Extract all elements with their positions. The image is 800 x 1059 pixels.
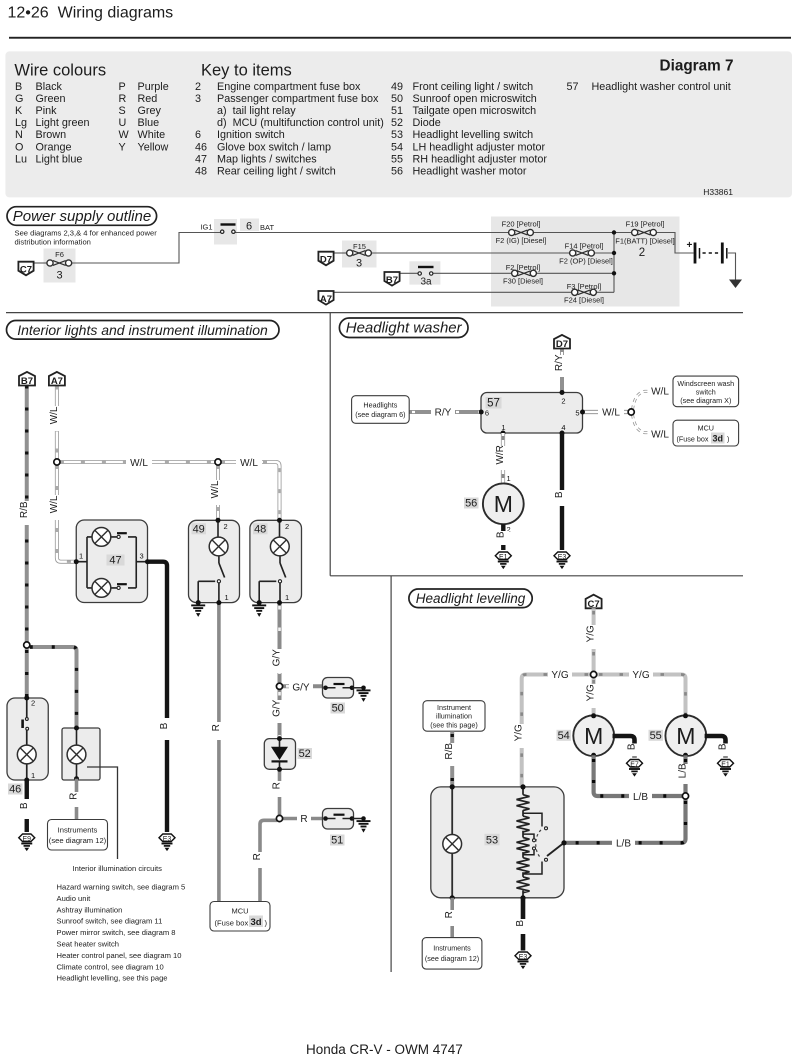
unit 53 lamp bottom pin dot <box>450 895 455 900</box>
label B vertical pin4 <box>554 490 568 506</box>
unit 48 pin 1 dot <box>277 600 282 605</box>
wire G/Y junction to diode 52 <box>278 689 282 738</box>
svg-text:53: 53 <box>486 834 498 846</box>
svg-text:Interior illumination circuits: Interior illumination circuits <box>73 864 163 873</box>
label W/L horizontal 1 <box>126 455 152 469</box>
svg-text:Y: Y <box>119 141 126 153</box>
wire 3a to fuse F2/F30 <box>433 272 514 274</box>
section top border line <box>6 312 743 314</box>
svg-text:F1(BATT) [Diesel]: F1(BATT) [Diesel] <box>615 237 674 246</box>
svg-text:50: 50 <box>391 93 403 105</box>
unit 49 switch blade <box>219 563 225 578</box>
svg-text:Purple: Purple <box>138 81 169 93</box>
label R vertical unit 49 column <box>211 722 225 740</box>
svg-text:G/Y: G/Y <box>272 649 283 667</box>
svg-text:Power mirror switch, see diagr: Power mirror switch, see diagram 8 <box>57 928 176 937</box>
svg-text:Yellow: Yellow <box>138 141 169 153</box>
wire R/Y from headlights box to pin 6 <box>409 410 481 414</box>
unit 51 internal contacts <box>326 818 352 820</box>
svg-text:Brown: Brown <box>36 129 67 141</box>
ground E3 (washer) <box>554 552 570 569</box>
battery right short plate <box>726 248 728 259</box>
svg-text:Blue: Blue <box>138 117 160 129</box>
label R/B vertical levelling <box>444 743 458 766</box>
svg-text:W/R: W/R <box>495 445 506 464</box>
ignition switch gray box <box>214 219 237 245</box>
svg-text:Headlights: Headlights <box>363 401 397 410</box>
svg-text:Tailgate open microswitch: Tailgate open microswitch <box>413 105 537 117</box>
svg-text:B: B <box>159 722 170 729</box>
svg-text:R/B: R/B <box>444 743 455 760</box>
svg-text:W/L: W/L <box>49 406 60 424</box>
wiper arm <box>547 843 564 856</box>
wire Y/G junction to motor 54 <box>592 678 596 716</box>
svg-text:R: R <box>272 782 283 789</box>
wire R/B junction to unit 46 pin 2 <box>25 648 29 698</box>
svg-text:49: 49 <box>391 81 403 93</box>
svg-text:Instrument: Instrument <box>437 703 471 712</box>
unit 47 number label <box>107 555 125 567</box>
branch wire to windscreen wash switch <box>633 391 672 409</box>
connector C7 (levelling) <box>586 595 602 610</box>
diode 52 triangle <box>271 747 288 760</box>
svg-text:R/B: R/B <box>19 501 30 518</box>
svg-text:Orange: Orange <box>36 141 72 153</box>
svg-text:E3: E3 <box>163 836 172 843</box>
svg-text:6: 6 <box>246 221 252 233</box>
svg-text:LH headlight adjuster motor: LH headlight adjuster motor <box>413 141 546 153</box>
unit 50 earth symbol <box>357 690 371 702</box>
tap contact circle 3 <box>533 847 536 850</box>
svg-text:2: 2 <box>195 81 201 93</box>
svg-text:Lu: Lu <box>15 153 27 165</box>
svg-text:Honda CR-V - OWM 4747: Honda CR-V - OWM 4747 <box>306 1042 463 1057</box>
unit 47 bottom switch contact <box>117 586 120 589</box>
wire D7 to F15 <box>334 252 349 254</box>
wire F3/F24 to bus corner <box>595 291 614 293</box>
svg-text:Headlight levelling, see this: Headlight levelling, see this page <box>57 974 168 983</box>
connector D7 (washer) <box>554 335 570 350</box>
svg-text:Headlight levelling switch: Headlight levelling switch <box>413 129 534 141</box>
svg-text:1: 1 <box>225 593 229 602</box>
callout leader line <box>87 767 118 859</box>
motor 55 bottom pin dot <box>683 753 688 758</box>
unit 57 pin 4 dot <box>560 431 565 436</box>
svg-text:B: B <box>718 743 729 750</box>
unit 53 levelling switch box <box>431 787 564 898</box>
svg-text:2: 2 <box>639 247 645 259</box>
svg-text:(Fuse box: (Fuse box <box>677 435 709 444</box>
unit 53 lamp <box>443 835 462 854</box>
label B vertical motor55 <box>718 743 732 756</box>
label R vertical levelling <box>444 910 458 926</box>
svg-text:3: 3 <box>195 93 201 105</box>
unit 51 switch bar <box>334 814 345 816</box>
svg-text:W/L: W/L <box>49 495 60 513</box>
svg-text:See diagrams 2,3,& 4 for enhan: See diagrams 2,3,& 4 for enhanced power <box>15 229 158 238</box>
svg-text:K: K <box>15 105 23 117</box>
svg-text:F2 [Petrol]: F2 [Petrol] <box>506 263 541 272</box>
label W/L horizontal washer <box>598 405 624 418</box>
motor 55 top pin dot <box>683 713 688 718</box>
svg-text:MCU: MCU <box>698 424 714 433</box>
unit 50 right pin dot <box>350 686 355 691</box>
svg-text:R: R <box>300 814 307 825</box>
svg-text:B: B <box>15 81 22 93</box>
svg-text:Black: Black <box>36 81 63 93</box>
switch 3a bar <box>418 266 434 268</box>
svg-text:Grey: Grey <box>138 105 162 117</box>
wire W/R pin1 to motor 56 <box>501 433 505 483</box>
svg-text:Light blue: Light blue <box>36 153 83 165</box>
label B vertical levelling <box>515 919 529 934</box>
connector C7 (power) <box>18 262 33 276</box>
svg-text:47: 47 <box>195 153 207 165</box>
svg-text:G/Y: G/Y <box>292 682 310 693</box>
unit 48 rear ceiling light box <box>250 520 302 602</box>
svg-text:F19 [Petrol]: F19 [Petrol] <box>626 220 665 229</box>
svg-text:illumination: illumination <box>436 712 472 721</box>
svg-text:F2 (OP) [Diesel]: F2 (OP) [Diesel] <box>559 257 613 266</box>
junction circle R/B column <box>24 642 30 648</box>
svg-text:4: 4 <box>561 423 565 432</box>
svg-text:E7: E7 <box>630 762 639 769</box>
label B vertical motor54 <box>627 743 641 756</box>
svg-text:E1: E1 <box>721 762 730 769</box>
svg-text:(see diagram 12): (see diagram 12) <box>425 954 479 963</box>
washer section bottom border <box>330 575 743 577</box>
svg-text:A7: A7 <box>51 376 63 387</box>
washer control unit 57 box <box>481 393 583 434</box>
MCU fuse box 3d reference (washer) <box>673 420 739 446</box>
svg-text:E3: E3 <box>519 954 528 961</box>
unit 48 earth symbol <box>252 605 266 617</box>
unit 47 top switch bar <box>117 532 127 534</box>
instruments lamp bottom pin dot <box>74 776 79 781</box>
wire B from unit 46 to E9 <box>25 780 29 832</box>
svg-text:RH headlight adjuster motor: RH headlight adjuster motor <box>413 153 548 165</box>
unit 48 ground dot <box>257 600 262 605</box>
tap 4 <box>523 862 542 875</box>
svg-text:L/B: L/B <box>678 763 689 778</box>
svg-text:F6: F6 <box>55 250 64 259</box>
unit 50 sunroof microswitch box <box>323 678 354 699</box>
battery ground arrow <box>729 280 742 289</box>
motor 56 number label <box>464 498 479 510</box>
power supply pill label <box>7 207 157 226</box>
motor 56 washer motor <box>483 483 524 524</box>
svg-text:R/Y: R/Y <box>435 408 452 419</box>
wire B unit 53 to E3 <box>521 898 526 951</box>
junction circle G/Y <box>276 683 282 689</box>
unit 49 lamp <box>209 537 228 556</box>
unit 47 pin 3 dot <box>145 559 150 564</box>
svg-text:Seat heater switch: Seat heater switch <box>57 940 119 949</box>
diode 52 box <box>264 739 295 770</box>
svg-text:12•26 Wiring diagrams: 12•26 Wiring diagrams <box>8 5 174 22</box>
svg-text:B7: B7 <box>21 376 33 387</box>
diode 52 number label <box>298 748 313 760</box>
instruments reference box (levelling) <box>422 938 482 970</box>
svg-text:2: 2 <box>224 522 228 531</box>
ground E9 <box>19 834 35 851</box>
diode 52 internal wire <box>279 739 281 770</box>
label R/B vertical <box>19 501 33 525</box>
unit 47 top lamp <box>92 528 111 547</box>
wire F19 to battery <box>655 233 694 254</box>
svg-text:switch: switch <box>696 387 716 396</box>
svg-text:N: N <box>15 129 23 141</box>
label W/L branch lower <box>648 428 672 441</box>
unit 49 front ceiling light box <box>189 520 240 602</box>
unit 53 wiper pin dot <box>561 840 566 845</box>
svg-text:R/Y: R/Y <box>554 354 565 371</box>
svg-text:S: S <box>119 105 126 117</box>
svg-text:M: M <box>676 723 695 749</box>
wire W/L down to unit 47 pin 1 <box>57 465 76 562</box>
svg-text:Rear ceiling light / switch: Rear ceiling light / switch <box>217 166 336 178</box>
svg-text:3d: 3d <box>712 434 723 444</box>
svg-text:Engine compartment fuse box: Engine compartment fuse box <box>217 81 361 93</box>
tap 2 <box>523 834 534 838</box>
svg-text:O: O <box>15 141 23 153</box>
svg-text:E9: E9 <box>22 836 31 843</box>
unit 50 ground wire <box>352 687 364 689</box>
svg-text:47: 47 <box>109 555 121 567</box>
wire L/B junction to unit 53 wiper <box>564 799 686 843</box>
svg-text:46: 46 <box>195 141 207 153</box>
unit 49 number label <box>192 523 207 535</box>
unit 49 switch contact circle <box>217 580 220 583</box>
unit 46 pin 2 dot <box>24 696 29 701</box>
motor 54 number label <box>557 730 572 742</box>
svg-text:53: 53 <box>391 129 403 141</box>
label R vertical MCU drop <box>252 852 266 868</box>
svg-text:55: 55 <box>650 730 662 742</box>
svg-text:B: B <box>495 531 506 538</box>
wire W/L horizontal to unit 48 <box>221 462 280 520</box>
unit 53 resistor top pin dot <box>520 784 525 789</box>
label R vertical below diode <box>272 781 286 797</box>
wire R branch to unit 51 <box>283 817 326 821</box>
wire Y/G junction right branch to motor 55 <box>597 675 686 716</box>
unit 48 lamp <box>270 537 289 556</box>
unit 48 pin 2 dot <box>277 518 282 523</box>
svg-text:1: 1 <box>501 423 505 432</box>
unit 57 pin 1 dot <box>501 431 506 436</box>
unit 51 ground dot <box>361 816 366 821</box>
wire Y/G from C7 to junction <box>592 608 596 671</box>
wire B from unit 47 pin 3 to E3 ground <box>148 562 168 832</box>
ground E3 (interior) <box>159 834 175 851</box>
junction dot bus row1 <box>612 230 616 234</box>
label Y/G horizontal left <box>548 668 572 681</box>
levelling section left border <box>390 576 392 972</box>
svg-text:U: U <box>119 117 127 129</box>
fuse F14/F2(OP) <box>570 250 595 256</box>
svg-text:2: 2 <box>285 522 289 531</box>
svg-text:W/L: W/L <box>651 387 669 398</box>
interior footnote list <box>57 883 186 983</box>
unit 48 number label <box>253 523 268 535</box>
unit 53 lamp wire <box>451 787 453 898</box>
svg-text:(see diagram 12): (see diagram 12) <box>49 836 107 845</box>
tap 1 <box>523 813 542 826</box>
wire W/L down to unit 49 pin 2 <box>216 465 220 520</box>
svg-text:a) tail light relay: a) tail light relay <box>217 105 296 117</box>
svg-text:R: R <box>444 911 455 918</box>
wire battery to ground <box>728 253 736 280</box>
wire R from diode to junction <box>278 769 282 815</box>
svg-text:3: 3 <box>140 552 144 561</box>
svg-text:Pink: Pink <box>36 105 58 117</box>
svg-text:Front ceiling light / switch: Front ceiling light / switch <box>413 81 534 93</box>
label W/L horizontal 2 <box>236 455 262 469</box>
svg-text:W: W <box>119 129 130 141</box>
junction dot bus row3 <box>612 271 616 275</box>
svg-text:57: 57 <box>567 81 579 93</box>
svg-text:BAT: BAT <box>260 223 274 232</box>
unit 49 ground dot <box>196 600 201 605</box>
unit 46 switch blade bar <box>21 720 24 729</box>
junction circle R <box>276 815 282 821</box>
wire Y/G junction left branch to unit 53 <box>522 675 591 787</box>
wiper contact dashes <box>536 830 541 858</box>
fuse F3/F24 <box>572 289 597 295</box>
wire R to instruments reference box <box>75 779 79 820</box>
wire BAT to fuse F20 <box>235 232 510 234</box>
unit 49 pin 1 dot <box>216 600 221 605</box>
svg-text:H33861: H33861 <box>703 187 733 197</box>
headlight washer pill label <box>339 318 468 338</box>
wire W/L from pin 5 to connector circle <box>583 410 629 414</box>
svg-text:Y/G: Y/G <box>551 670 568 681</box>
unit 51 tailgate microswitch box <box>323 809 354 830</box>
fuse F2/F30 <box>512 270 537 276</box>
unit 57 number label <box>486 397 502 410</box>
svg-text:50: 50 <box>332 703 344 715</box>
label G/Y vertical lower <box>272 699 286 723</box>
wire L/B motor 55 to junction <box>683 755 687 792</box>
wire F20 to F19 <box>532 232 633 234</box>
unit 50 number label <box>331 703 346 715</box>
fuse F20/F2(IG) <box>509 229 534 235</box>
unit 46 switch contact top <box>25 718 28 721</box>
unit 57 pin 2 dot <box>560 390 565 395</box>
diode 52 top pin dot <box>277 736 282 741</box>
unit 47 bottom switch bar <box>117 583 127 585</box>
svg-text:W/L: W/L <box>210 480 221 498</box>
svg-text:5: 5 <box>575 409 579 418</box>
svg-text:A7: A7 <box>320 294 332 305</box>
svg-text:52: 52 <box>299 748 311 760</box>
connector A7 (power) <box>318 291 333 305</box>
svg-text:W/L: W/L <box>651 430 669 441</box>
resistor 4 <box>517 858 530 874</box>
fuse box 2 gray panel <box>491 217 680 307</box>
svg-text:d) MCU (multifunction control: d) MCU (multifunction control unit) <box>217 117 384 129</box>
svg-text:MCU: MCU <box>231 907 248 916</box>
svg-text:1: 1 <box>507 474 511 483</box>
instruments lamp internal wire <box>76 728 78 779</box>
unit 50 switch bar <box>334 683 345 685</box>
unit 53 lamp top pin dot <box>450 784 455 789</box>
label L/B horizontal upper <box>629 790 652 803</box>
key to items list <box>195 81 731 178</box>
svg-text:Y/G: Y/G <box>632 670 649 681</box>
label B vertical motor56 <box>495 531 509 545</box>
label W/L branch upper <box>648 385 672 398</box>
wire B7 to 3a switch <box>400 272 419 274</box>
svg-text:1: 1 <box>31 771 35 780</box>
svg-text:B: B <box>515 920 526 927</box>
label B vertical unit47 output <box>159 718 173 740</box>
junction dot bus row2 <box>612 251 616 255</box>
svg-text:48: 48 <box>254 524 266 536</box>
svg-text:54: 54 <box>558 730 570 742</box>
unit 51 ground wire <box>352 818 364 820</box>
instruments lamp box <box>62 728 100 780</box>
svg-text:M: M <box>494 491 513 517</box>
unit 49 pin 2 dot <box>216 518 221 523</box>
resistor 2 <box>517 816 530 832</box>
label L/B vertical motor55 <box>678 763 692 784</box>
unit 48 switch blade <box>280 563 286 578</box>
unit 57 pin 5 dot <box>580 410 585 415</box>
unit 46 lamp <box>17 745 36 764</box>
battery left short plate <box>699 248 701 259</box>
svg-text:Green: Green <box>36 93 66 105</box>
unit 47 pin 1 dot <box>74 559 79 564</box>
wire B from pin 4 to E3 <box>560 433 564 550</box>
wire G/Y branch to unit 50 <box>283 684 326 688</box>
tap contact circle 1 <box>545 827 548 830</box>
label W/L vertical A7 upper <box>49 406 63 431</box>
label Y/G vertical upper <box>586 625 600 649</box>
svg-text:55: 55 <box>391 153 403 165</box>
junction circle Y/G <box>591 671 597 677</box>
svg-text:C7: C7 <box>588 599 600 610</box>
unit 47 internal right bus <box>111 537 148 588</box>
svg-text:R: R <box>252 853 263 860</box>
label G/Y vertical upper <box>272 649 286 673</box>
svg-text:E1: E1 <box>499 554 508 561</box>
svg-text:Headlight levelling: Headlight levelling <box>416 591 526 606</box>
svg-text:F20 [Petrol]: F20 [Petrol] <box>502 220 541 229</box>
label W/L vertical unit 49 drop <box>210 480 224 505</box>
unit 57 pin 6 dot <box>479 410 484 415</box>
connector B7 (power) <box>384 272 399 286</box>
resistor 3 <box>517 838 530 854</box>
svg-text:Climate control, see diagram 1: Climate control, see diagram 10 <box>57 962 164 971</box>
label W/L vertical lower left <box>49 495 63 520</box>
section divider vertical between interior and washer <box>329 313 331 576</box>
unit 51 right pin dot <box>350 816 355 821</box>
wire A7 to fuse F3/F24 <box>334 291 574 293</box>
ground E1 (levelling) <box>718 760 734 777</box>
unit 47 internal left bus <box>76 537 92 588</box>
svg-text:56: 56 <box>391 166 403 178</box>
svg-text:Heater control panel, see diag: Heater control panel, see diagram 10 <box>57 951 182 960</box>
svg-text:F3 [Petrol]: F3 [Petrol] <box>567 282 602 291</box>
svg-text:White: White <box>138 129 166 141</box>
svg-text:Light green: Light green <box>36 117 90 129</box>
motor 54 top pin dot <box>591 713 596 718</box>
svg-text:Diode: Diode <box>413 117 441 129</box>
wire L/B motor 54 to junction <box>594 755 682 796</box>
unit 53 resistor bottom pin dot <box>520 895 525 900</box>
motor 55 number label <box>649 730 664 742</box>
